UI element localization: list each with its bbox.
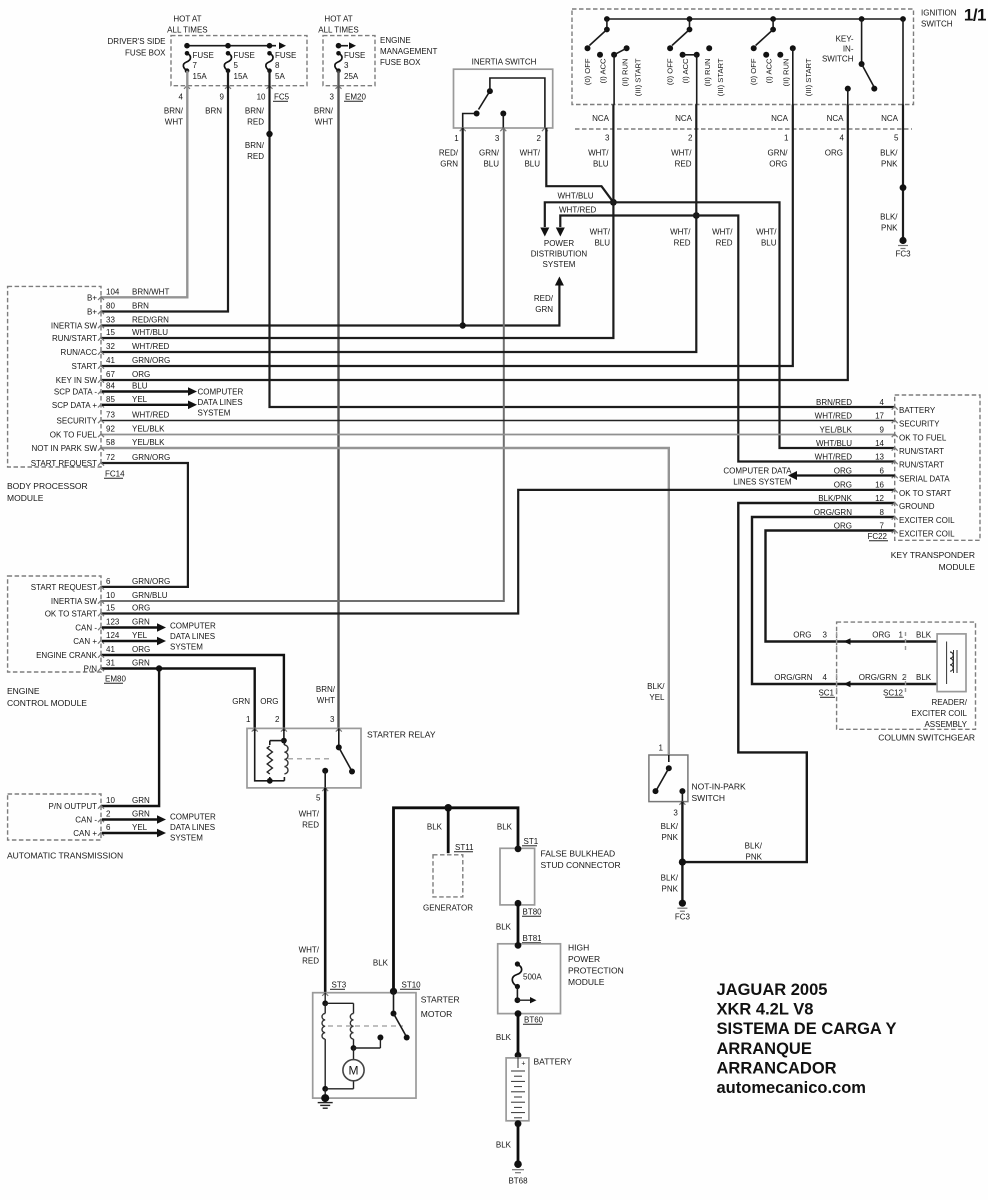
svg-text:STUD CONNECTOR: STUD CONNECTOR [541, 860, 621, 870]
svg-text:START: START [72, 362, 98, 371]
relay switch [338, 728, 340, 747]
starter motor entry ticks [322, 993, 328, 996]
wire WHT/RED BPM pin73 to transponder SECURITY [101, 420, 895, 422]
svg-text:ORG: ORG [834, 521, 852, 530]
fuse 5 15A [224, 53, 231, 70]
svg-text:ENGINE: ENGINE [380, 36, 411, 45]
svg-text:SC12: SC12 [883, 689, 904, 698]
node RED/GRN junction at inertia wire [460, 322, 466, 328]
svg-text:EXCITER COIL: EXCITER COIL [911, 709, 967, 718]
svg-text:GRN/: GRN/ [768, 149, 789, 158]
HPPM internal arrow [516, 987, 518, 1001]
wire GRN/ORG BPM pin72 to ECM pin6 [101, 463, 188, 587]
svg-text:ARRANCADOR: ARRANCADOR [717, 1059, 837, 1077]
svg-text:104: 104 [106, 288, 120, 297]
svg-text:6: 6 [880, 466, 885, 475]
svg-text:BATTERY: BATTERY [899, 406, 936, 415]
svg-text:FUSE BOX: FUSE BOX [380, 58, 421, 67]
svg-text:EXCITER COIL: EXCITER COIL [899, 530, 955, 539]
high power protection module box [498, 944, 561, 1014]
svg-text:BLK/: BLK/ [647, 682, 665, 691]
starter motor box [313, 993, 416, 1098]
battery top dot [515, 1052, 522, 1059]
svg-text:5: 5 [316, 794, 321, 803]
svg-text:COLUMN SWITCHGEAR: COLUMN SWITCHGEAR [878, 733, 975, 743]
svg-text:WHT/BLU: WHT/BLU [816, 439, 852, 448]
ignition rotary switch section 1 (pin 3) [604, 16, 610, 22]
svg-text:ALL TIMES: ALL TIMES [318, 26, 358, 35]
svg-text:SISTEMA DE CARGA Y: SISTEMA DE CARGA Y [717, 1020, 897, 1038]
svg-text:(0) OFF: (0) OFF [666, 58, 675, 85]
svg-text:2: 2 [275, 715, 280, 724]
ignition switch box (dashed) [572, 9, 914, 105]
node ST10 dot [390, 988, 397, 995]
wire YEL/BLK BPM pin58 to not-in-park switch [101, 448, 669, 755]
svg-text:YEL/BLK: YEL/BLK [132, 438, 165, 447]
svg-text:17: 17 [875, 411, 884, 420]
svg-text:GRN: GRN [535, 305, 553, 314]
svg-text:POWER: POWER [568, 954, 600, 964]
connector SC1 dashes [836, 632, 838, 650]
column switchgear box (dashed) [837, 622, 976, 729]
svg-text:FC3: FC3 [895, 250, 911, 259]
battery internal plates [517, 1055, 519, 1068]
terminal FC3 (right) [899, 237, 906, 244]
reader coil symbol [950, 652, 953, 671]
svg-text:BRN/WHT: BRN/WHT [132, 288, 169, 297]
svg-text:WHT/BLU: WHT/BLU [558, 192, 594, 201]
svg-text:ORG: ORG [825, 149, 843, 158]
svg-text:GRN: GRN [132, 659, 150, 668]
reader/exciter coil assembly box [937, 634, 966, 692]
inertia switch internal contacts [463, 114, 477, 129]
svg-text:CAN +: CAN + [73, 637, 97, 646]
svg-text:NCA: NCA [771, 114, 789, 123]
node WHT/RED junction [693, 212, 700, 219]
wire RED/GRN up-arrow to power distribution [555, 277, 564, 286]
svg-text:SWITCH: SWITCH [921, 20, 953, 29]
svg-text:COMPUTER: COMPUTER [198, 388, 244, 397]
svg-text:1: 1 [784, 134, 789, 143]
svg-text:OK TO FUEL: OK TO FUEL [899, 434, 947, 443]
fuse 3 25A [336, 43, 342, 49]
svg-text:HIGH: HIGH [568, 943, 589, 953]
svg-text:BT80: BT80 [523, 908, 543, 917]
svg-text:58: 58 [106, 438, 115, 447]
wire BRN/WHT fuse7 to BPM pin104 [101, 71, 187, 298]
svg-text:SYSTEM: SYSTEM [170, 643, 203, 652]
svg-text:CAN -: CAN - [75, 816, 97, 825]
svg-text:YEL: YEL [132, 823, 148, 832]
wire BLK bulkhead to HPPM [517, 903, 520, 945]
svg-text:FUSE: FUSE [344, 51, 365, 60]
svg-text:(II) RUN: (II) RUN [782, 59, 791, 87]
wire RED/GRN BPM pin33 segment [101, 324, 463, 326]
svg-text:FC5: FC5 [274, 93, 290, 102]
svg-text:80: 80 [106, 302, 115, 311]
svg-text:ORG: ORG [872, 631, 890, 640]
svg-text:BRN: BRN [132, 302, 149, 311]
svg-text:NCA: NCA [881, 114, 899, 123]
svg-text:MOTOR: MOTOR [421, 1009, 452, 1019]
svg-text:16: 16 [875, 481, 884, 490]
svg-text:2: 2 [902, 673, 907, 682]
HPPM exit dot [515, 1010, 522, 1017]
svg-text:14: 14 [875, 439, 884, 448]
svg-text:ARRANQUE: ARRANQUE [717, 1040, 812, 1058]
svg-text:4: 4 [880, 398, 885, 407]
wire GRN/ORG ign pin1 to BPM pin41 [101, 105, 793, 367]
wire BLK/PNK transponder GROUND to FC3 node [682, 503, 894, 862]
motor M symbol [343, 1060, 364, 1081]
svg-text:BLK: BLK [916, 631, 932, 640]
svg-text:RUN/START: RUN/START [52, 334, 97, 343]
svg-text:PNK: PNK [746, 853, 763, 862]
svg-text:BLK/: BLK/ [661, 822, 679, 831]
svg-text:COMPUTER: COMPUTER [170, 813, 216, 822]
not-in-park switch contacts [668, 755, 670, 762]
svg-text:DATA LINES: DATA LINES [170, 823, 215, 832]
svg-text:67: 67 [106, 370, 115, 379]
svg-text:WHT/: WHT/ [670, 228, 691, 237]
svg-text:BLU: BLU [761, 239, 777, 248]
wire WHT/RED ign pin2 to BPM pin32 [101, 105, 696, 353]
svg-text:BLK: BLK [496, 1033, 512, 1042]
svg-text:EM80: EM80 [105, 675, 126, 684]
svg-text:IN-: IN- [843, 45, 854, 54]
svg-text:PNK: PNK [662, 885, 679, 894]
svg-text:WHT/: WHT/ [712, 228, 733, 237]
wire WHT/RED relay pin5 to ST3 [324, 788, 327, 993]
svg-text:RED/: RED/ [439, 149, 459, 158]
svg-text:BRN/: BRN/ [245, 141, 265, 150]
svg-text:25A: 25A [344, 72, 359, 81]
svg-text:+: + [521, 1061, 525, 1068]
svg-text:COMPUTER: COMPUTER [170, 622, 216, 631]
svg-text:NOT IN PARK SW: NOT IN PARK SW [32, 444, 98, 453]
svg-text:7: 7 [880, 521, 885, 530]
svg-text:RUN/START: RUN/START [899, 461, 944, 470]
svg-text:BLK/: BLK/ [880, 213, 898, 222]
wire RED/GRN inertia pin1 to BPM pin33 [462, 128, 464, 326]
wire ORG/GRN SC1 pin4 to reader coil [837, 683, 937, 685]
svg-text:(I) ACC: (I) ACC [598, 58, 607, 83]
svg-text:DATA LINES: DATA LINES [170, 632, 215, 641]
svg-text:1: 1 [246, 715, 251, 724]
svg-text:5: 5 [234, 61, 239, 70]
svg-text:9: 9 [880, 425, 885, 434]
svg-text:2: 2 [106, 810, 111, 819]
relay coil winding [284, 745, 288, 774]
svg-text:3: 3 [605, 134, 610, 143]
fuse 7 15A [183, 53, 190, 70]
svg-text:NOT-IN-PARK: NOT-IN-PARK [692, 782, 746, 792]
svg-text:GRN: GRN [232, 697, 250, 706]
svg-text:INERTIA SW: INERTIA SW [51, 322, 98, 331]
svg-text:BRN: BRN [205, 107, 222, 116]
wire BRN fuse5 to BPM pin80 [101, 71, 228, 312]
svg-text:INERTIA SWITCH: INERTIA SWITCH [472, 58, 537, 67]
svg-text:SECURITY: SECURITY [899, 420, 940, 429]
svg-text:SCP DATA +: SCP DATA + [52, 401, 97, 410]
svg-text:ST3: ST3 [332, 981, 347, 990]
svg-text:WHT/RED: WHT/RED [815, 452, 853, 461]
ignition rotary switch section 3 (pin 1) [770, 16, 776, 22]
svg-text:32: 32 [106, 342, 115, 351]
svg-text:YEL: YEL [132, 631, 148, 640]
wire GRN junction to AT pin10 [101, 669, 159, 807]
svg-text:5: 5 [894, 134, 899, 143]
svg-text:41: 41 [106, 356, 115, 365]
HPPM entry dot [515, 942, 522, 949]
svg-text:RED: RED [302, 821, 319, 830]
wire BLK/PNK NIP pin3 to FC3 [681, 802, 683, 904]
svg-text:WHT: WHT [315, 118, 333, 127]
svg-text:HOT AT: HOT AT [173, 15, 201, 24]
svg-text:JAGUAR 2005: JAGUAR 2005 [717, 981, 828, 999]
svg-text:P/N: P/N [84, 665, 98, 674]
svg-text:MODULE: MODULE [568, 977, 605, 987]
svg-text:AUTOMATIC TRANSMISSION: AUTOMATIC TRANSMISSION [7, 851, 123, 861]
wire ORG ign pin4 (key-in) to BPM pin67 [101, 105, 848, 381]
starter motor field coil circuit [324, 993, 326, 1004]
wire WHT/BLU ign pin3 to BPM pin15 [101, 105, 613, 339]
svg-text:CAN -: CAN - [75, 624, 97, 633]
svg-text:BT60: BT60 [524, 1016, 544, 1025]
svg-text:ASSEMBLY: ASSEMBLY [924, 720, 967, 729]
fuse box bus wire [187, 45, 276, 47]
inertia switch exit ticks [460, 128, 466, 131]
relay resistor [267, 746, 272, 774]
svg-text:BLK/: BLK/ [880, 149, 898, 158]
svg-text:COMPUTER DATA: COMPUTER DATA [723, 467, 792, 476]
svg-text:ORG/GRN: ORG/GRN [859, 673, 897, 682]
svg-text:M: M [349, 1064, 359, 1078]
svg-text:BLU: BLU [132, 382, 148, 391]
svg-text:7: 7 [193, 61, 198, 70]
wire YEL/BLK BPM pin92 to transponder OK TO FUEL [101, 434, 895, 436]
svg-text:FUSE: FUSE [275, 51, 296, 60]
svg-text:BLK/PNK: BLK/PNK [818, 494, 852, 503]
svg-text:GRN/: GRN/ [479, 149, 500, 158]
svg-text:RED: RED [716, 239, 733, 248]
node WHT/BLU junction [610, 199, 617, 206]
svg-text:WHT: WHT [165, 118, 183, 127]
svg-text:84: 84 [106, 382, 115, 391]
svg-text:RUN/START: RUN/START [899, 447, 944, 456]
svg-text:BRN/RED: BRN/RED [816, 398, 852, 407]
svg-text:BLK: BLK [427, 823, 443, 832]
svg-text:GENERATOR: GENERATOR [423, 904, 473, 913]
svg-text:ORG/GRN: ORG/GRN [774, 673, 812, 682]
svg-text:WHT/RED: WHT/RED [815, 411, 853, 420]
svg-text:73: 73 [106, 411, 115, 420]
svg-text:92: 92 [106, 425, 115, 434]
svg-text:8: 8 [880, 508, 885, 517]
svg-text:BLK: BLK [373, 959, 389, 968]
svg-text:ST10: ST10 [402, 981, 422, 990]
svg-text:BATTERY: BATTERY [534, 1057, 573, 1067]
svg-text:GROUND: GROUND [899, 502, 935, 511]
svg-text:KEY TRANSPONDER: KEY TRANSPONDER [891, 550, 975, 560]
svg-text:FC22: FC22 [867, 532, 887, 541]
svg-text:GRN: GRN [132, 618, 150, 627]
svg-text:INERTIA SW: INERTIA SW [51, 597, 98, 606]
battery box [506, 1058, 529, 1121]
svg-text:PROTECTION: PROTECTION [568, 966, 624, 976]
svg-text:6: 6 [106, 823, 111, 832]
svg-text:BLU: BLU [483, 160, 499, 169]
svg-text:WHT/: WHT/ [588, 149, 609, 158]
svg-text:8: 8 [275, 61, 280, 70]
svg-text:STARTER: STARTER [421, 995, 460, 1005]
svg-text:FC3: FC3 [675, 913, 691, 922]
svg-text:GRN/ORG: GRN/ORG [132, 577, 170, 586]
svg-text:(II) RUN: (II) RUN [703, 59, 712, 87]
svg-text:BRN/: BRN/ [245, 107, 265, 116]
svg-text:B+: B+ [87, 308, 97, 317]
fuse box exit ticks [184, 86, 190, 89]
svg-text:READER/: READER/ [931, 698, 967, 707]
svg-text:SWITCH: SWITCH [692, 793, 726, 803]
svg-text:RED: RED [675, 160, 692, 169]
splice dot on BRN/RED wire [266, 131, 272, 137]
svg-text:WHT/: WHT/ [590, 228, 611, 237]
svg-text:1/1: 1/1 [964, 6, 986, 25]
svg-text:BLU: BLU [594, 239, 610, 248]
svg-text:BODY PROCESSOR: BODY PROCESSOR [7, 481, 88, 491]
svg-text:B+: B+ [87, 294, 97, 303]
starter motor ground dot [321, 1094, 329, 1102]
field coil 2 [350, 1014, 353, 1040]
svg-text:3: 3 [673, 809, 678, 818]
svg-text:EM20: EM20 [345, 93, 366, 102]
key transponder module box (dashed) [895, 395, 980, 540]
svg-text:BLK: BLK [496, 1141, 512, 1150]
svg-text:6: 6 [106, 577, 111, 586]
svg-text:9: 9 [220, 93, 225, 102]
wire inertia pin2 to WHT/BLU node [546, 128, 613, 202]
svg-text:ORG: ORG [769, 160, 787, 169]
svg-text:(I) ACC: (I) ACC [681, 58, 690, 83]
svg-text:WHT/RED: WHT/RED [559, 206, 597, 215]
driver's side fuse box (dashed) [171, 36, 307, 86]
svg-text:KEY IN SW: KEY IN SW [56, 376, 98, 385]
engine management fuse box (dashed) [323, 36, 375, 86]
fuse 8 5A [266, 53, 273, 70]
svg-text:(III) START: (III) START [634, 58, 643, 96]
wire GRN ECM pin31 to starter relay pin1 [101, 669, 255, 732]
svg-text:OK TO START: OK TO START [45, 610, 97, 619]
svg-text:BLU: BLU [593, 160, 609, 169]
svg-text:DISTRIBUTION: DISTRIBUTION [531, 250, 588, 259]
svg-text:BRN/: BRN/ [316, 685, 336, 694]
svg-text:BLK/: BLK/ [745, 842, 763, 851]
battery bottom dot [515, 1120, 522, 1127]
svg-text:4: 4 [823, 673, 828, 682]
svg-text:SYSTEM: SYSTEM [170, 834, 203, 843]
svg-text:ALL TIMES: ALL TIMES [167, 26, 207, 35]
svg-text:123: 123 [106, 618, 120, 627]
svg-text:PNK: PNK [881, 160, 898, 169]
svg-text:RED: RED [247, 118, 264, 127]
svg-text:SYSTEM: SYSTEM [543, 260, 576, 269]
svg-text:WHT/: WHT/ [671, 149, 692, 158]
svg-text:DATA LINES: DATA LINES [198, 398, 243, 407]
svg-text:P/N OUTPUT: P/N OUTPUT [49, 802, 98, 811]
svg-text:RED: RED [674, 239, 691, 248]
connector SC12 dashes [905, 632, 907, 650]
svg-text:POWER: POWER [544, 239, 574, 248]
svg-text:41: 41 [106, 645, 115, 654]
svg-text:START REQUEST: START REQUEST [31, 459, 97, 468]
svg-text:SYSTEM: SYSTEM [198, 409, 231, 418]
not-in-park switch box [649, 755, 688, 802]
node P/N junction [156, 665, 162, 671]
svg-text:BT68: BT68 [508, 1177, 528, 1186]
svg-text:WHT: WHT [317, 696, 335, 705]
starter solenoid switch [393, 991, 395, 1013]
generator box (dashed) [433, 855, 463, 897]
svg-text:ENGINE CRANK: ENGINE CRANK [36, 651, 98, 660]
svg-text:SCP DATA -: SCP DATA - [54, 388, 97, 397]
svg-text:1: 1 [454, 134, 459, 143]
wire BLK battery to BT68 [517, 1121, 520, 1164]
svg-text:BLK: BLK [916, 673, 932, 682]
svg-text:85: 85 [106, 395, 115, 404]
svg-text:XKR 4.2L V8: XKR 4.2L V8 [717, 1001, 814, 1019]
svg-text:WHT/: WHT/ [299, 810, 320, 819]
svg-text:4: 4 [840, 134, 845, 143]
svg-text:NCA: NCA [592, 114, 610, 123]
svg-text:(II) RUN: (II) RUN [620, 59, 629, 87]
automatic transmission box (dashed) [8, 794, 101, 840]
svg-text:10: 10 [257, 93, 266, 102]
svg-text:FUSE: FUSE [193, 51, 214, 60]
svg-text:ST1: ST1 [524, 837, 539, 846]
ignition connector dashed line [575, 128, 912, 130]
ignition rotary switch section 2 (pin 2) [687, 16, 693, 22]
svg-text:500A: 500A [523, 973, 542, 982]
svg-text:5A: 5A [275, 72, 285, 81]
wire ORG transponder EXCITER 7 to SC1 pin3 [766, 531, 895, 642]
svg-text:IGNITION: IGNITION [921, 9, 957, 18]
svg-text:BT81: BT81 [523, 934, 543, 943]
svg-text:ORG: ORG [260, 697, 278, 706]
svg-text:RED: RED [302, 957, 319, 966]
svg-text:EXCITER COIL: EXCITER COIL [899, 516, 955, 525]
svg-text:2: 2 [536, 134, 541, 143]
inertia switch box [454, 69, 553, 128]
svg-text:3: 3 [823, 631, 828, 640]
svg-text:YEL/BLK: YEL/BLK [132, 425, 165, 434]
svg-text:YEL/BLK: YEL/BLK [820, 425, 853, 434]
svg-text:MODULE: MODULE [939, 562, 976, 572]
starter relay box [247, 728, 361, 788]
svg-text:2: 2 [688, 134, 693, 143]
svg-text:RED: RED [247, 152, 264, 161]
false bulkhead stud connector dots [515, 846, 522, 853]
svg-text:automecanico.com: automecanico.com [717, 1079, 866, 1097]
svg-text:10: 10 [106, 591, 115, 600]
svg-text:LINES SYSTEM: LINES SYSTEM [733, 478, 792, 487]
svg-text:BLK: BLK [497, 823, 513, 832]
svg-text:WHT/: WHT/ [299, 946, 320, 955]
svg-text:RED/GRN: RED/GRN [132, 316, 169, 325]
svg-text:STARTER RELAY: STARTER RELAY [367, 730, 436, 740]
svg-text:WHT/: WHT/ [520, 149, 541, 158]
svg-text:15: 15 [106, 328, 115, 337]
